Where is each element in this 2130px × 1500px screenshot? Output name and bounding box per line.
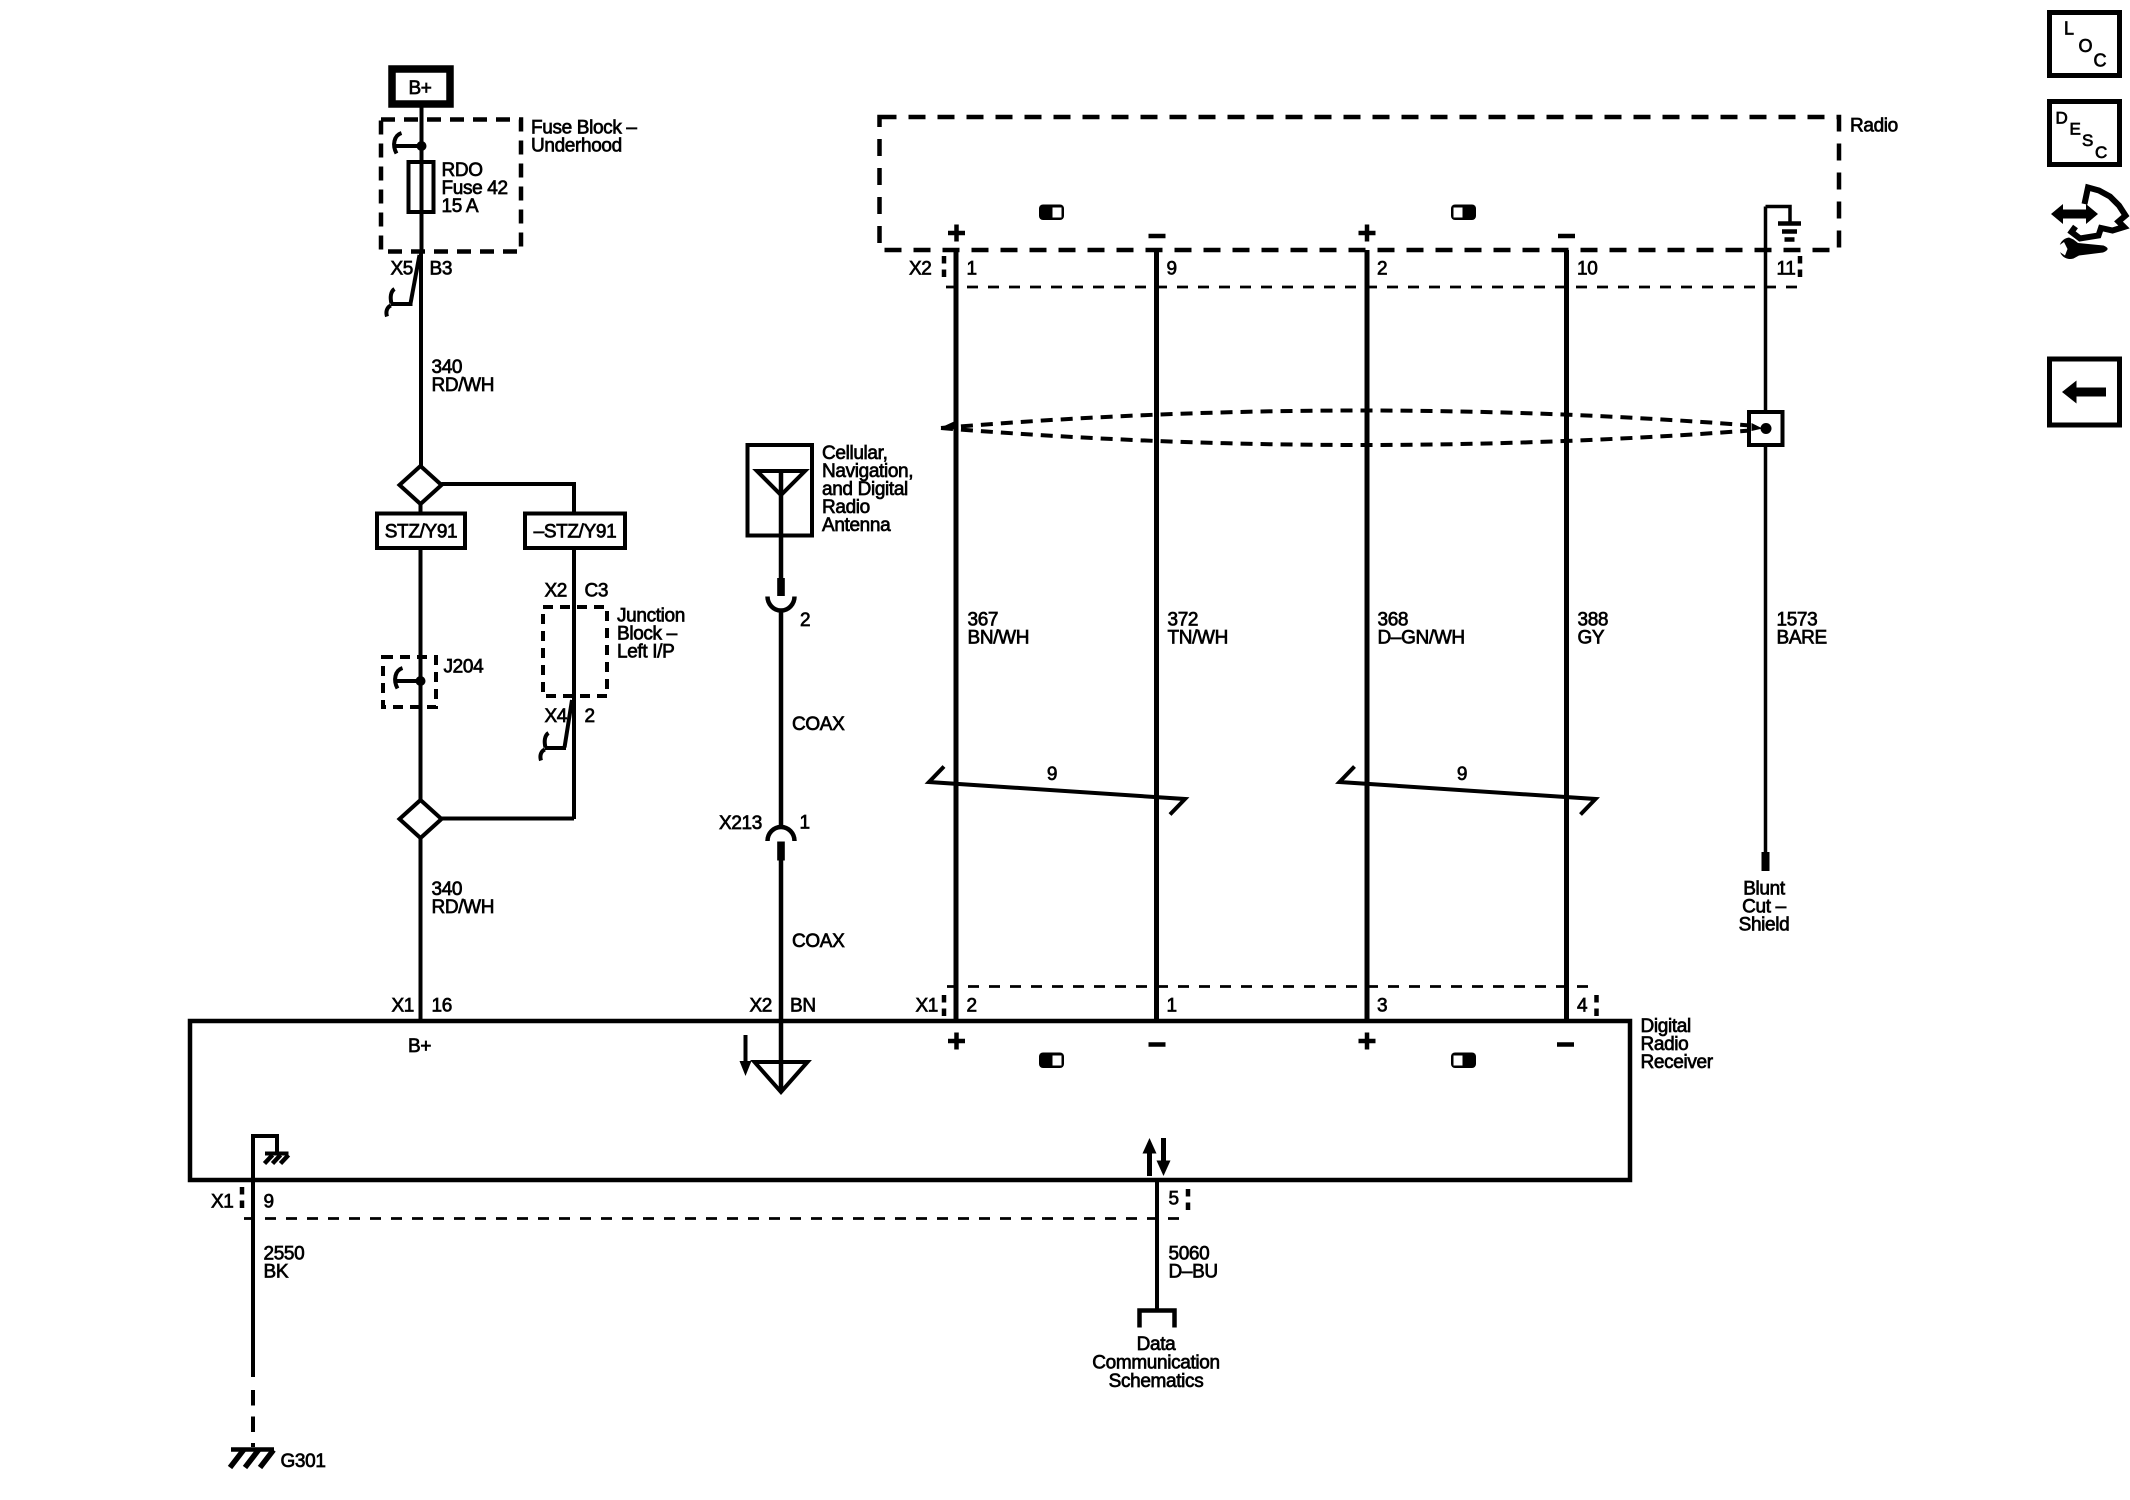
icon LOC box xyxy=(2050,13,2120,76)
svg-text:B+: B+ xyxy=(408,1036,431,1057)
svg-text:2: 2 xyxy=(1377,259,1387,280)
connector X1 pin row top xyxy=(915,995,1596,1017)
power symbol B+ xyxy=(392,69,450,104)
antenna Cellular Navigation Digital Radio xyxy=(748,445,813,578)
svg-text:X2: X2 xyxy=(749,996,772,1017)
svg-text:2: 2 xyxy=(800,610,810,631)
svg-text:Radio: Radio xyxy=(1850,116,1898,137)
radio speaker icon left xyxy=(1039,205,1064,221)
svg-text:BK: BK xyxy=(264,1262,289,1283)
svg-text:Antenna: Antenna xyxy=(822,515,891,536)
ground G301 xyxy=(230,1450,326,1473)
alias box -STZ/Y91 xyxy=(525,514,625,549)
data communication arrows xyxy=(1143,1138,1171,1176)
wire from S1 to -STZ/Y91 xyxy=(442,484,575,514)
svg-text:COAX: COAX xyxy=(792,714,845,735)
radio internal ground pin 11 xyxy=(1766,207,1802,240)
svg-text:STZ/Y91: STZ/Y91 xyxy=(385,522,458,543)
wire 2550 BK xyxy=(251,1181,255,1377)
svg-text:Underhood: Underhood xyxy=(531,136,622,157)
svg-text:S: S xyxy=(2082,131,2093,150)
terminal clip at fuse input with junction dot xyxy=(394,133,426,154)
shield tie box with junction dot xyxy=(1749,412,1783,445)
receiver polarity marks xyxy=(948,1033,1574,1050)
svg-text:RD/WH: RD/WH xyxy=(432,375,495,396)
speaker wire 388 GY xyxy=(1564,250,1569,1021)
svg-text:15 A: 15 A xyxy=(442,196,479,217)
svg-text:X1: X1 xyxy=(391,996,414,1017)
svg-text:C3: C3 xyxy=(585,581,609,602)
splice diamond S1 xyxy=(400,466,442,504)
svg-text:O: O xyxy=(2079,36,2093,56)
svg-text:9: 9 xyxy=(1457,764,1467,785)
svg-text:Shield: Shield xyxy=(1739,915,1790,936)
wire -STZ through junction block xyxy=(572,548,576,819)
svg-text:11: 11 xyxy=(1777,259,1796,280)
svg-text:D–BU: D–BU xyxy=(1169,1262,1218,1283)
wire 340 RD/WH upper xyxy=(419,252,423,467)
svg-text:J204: J204 xyxy=(444,657,485,678)
svg-text:RD/WH: RD/WH xyxy=(432,897,495,918)
svg-text:X2: X2 xyxy=(909,259,932,280)
svg-text:C: C xyxy=(2095,143,2107,162)
svg-text:GY: GY xyxy=(1578,628,1605,649)
svg-text:BARE: BARE xyxy=(1777,628,1827,649)
twisted pair marker left 9 xyxy=(929,764,1185,815)
svg-text:–STZ/Y91: –STZ/Y91 xyxy=(534,522,617,543)
svg-text:3: 3 xyxy=(1377,996,1387,1017)
svg-text:X213: X213 xyxy=(719,813,762,834)
svg-text:D–GN/WH: D–GN/WH xyxy=(1378,628,1465,649)
svg-text:5: 5 xyxy=(1169,1189,1179,1210)
svg-text:4: 4 xyxy=(1577,996,1588,1017)
connector X1 plane dashed line xyxy=(947,985,1597,988)
svg-text:BN/WH: BN/WH xyxy=(968,628,1030,649)
receiver pin labels X1 16 xyxy=(391,996,451,1017)
wire X4 down and across to S2 xyxy=(442,817,575,821)
icon repair tool xyxy=(2051,188,2126,260)
connector X4 2 labels xyxy=(544,706,594,727)
svg-text:16: 16 xyxy=(432,996,452,1017)
svg-text:1: 1 xyxy=(1167,996,1177,1017)
svg-text:Left I/P: Left I/P xyxy=(617,642,674,663)
fuse block underhood dashed box xyxy=(381,120,521,252)
svg-text:B3: B3 xyxy=(430,259,453,280)
antenna connector pin 2 xyxy=(768,578,811,631)
wire 340 RD/WH lower xyxy=(419,838,423,1021)
label Fuse Block - Underhood xyxy=(531,118,637,157)
speaker wire 372 TN/WH xyxy=(1154,250,1159,1021)
connector X213 pin 1 xyxy=(719,813,810,861)
coax wire lower xyxy=(779,860,784,1021)
svg-text:X2: X2 xyxy=(544,581,567,602)
blunt cut shield end xyxy=(1739,852,1790,936)
svg-text:X4: X4 xyxy=(544,706,567,727)
twisted pair marker right 9 xyxy=(1340,764,1596,815)
svg-text:Schematics: Schematics xyxy=(1109,1371,1204,1392)
svg-text:Receiver: Receiver xyxy=(1641,1052,1714,1073)
receiver internal ground xyxy=(253,1136,289,1181)
wire S1 to STZ box xyxy=(419,504,423,514)
connector X5 B3 labels xyxy=(390,259,452,280)
svg-text:X1: X1 xyxy=(915,996,938,1017)
svg-text:B+: B+ xyxy=(408,78,431,99)
connector X1 pin 9 bottom xyxy=(211,1187,274,1213)
connector pin 5 xyxy=(1169,1189,1189,1215)
svg-text:X5: X5 xyxy=(390,259,413,280)
svg-text:9: 9 xyxy=(264,1192,274,1213)
svg-text:10: 10 xyxy=(1577,259,1597,280)
svg-text:TN/WH: TN/WH xyxy=(1168,628,1229,649)
radio speaker icon right xyxy=(1451,205,1476,221)
svg-text:D: D xyxy=(2056,109,2068,128)
wire B+ to fuse xyxy=(420,107,424,252)
alias box STZ/Y91 xyxy=(377,514,465,549)
svg-text:2: 2 xyxy=(967,996,977,1017)
receiver speaker icon left xyxy=(1039,1053,1064,1069)
svg-text:1: 1 xyxy=(800,813,810,834)
svg-text:X1: X1 xyxy=(211,1192,234,1213)
connector X2 pin row xyxy=(909,256,1800,281)
fuse RDO Fuse 42 15 A xyxy=(409,160,508,217)
radio dashed box xyxy=(880,117,1840,250)
connector X2 C3 labels xyxy=(544,581,608,602)
wire 5060 D-BU xyxy=(1155,1181,1159,1310)
svg-text:COAX: COAX xyxy=(792,931,845,952)
svg-text:9: 9 xyxy=(1047,764,1057,785)
svg-text:2: 2 xyxy=(585,706,595,727)
connector X1 bottom plane dashed line xyxy=(244,1217,1188,1220)
coax wire upper xyxy=(779,611,784,830)
svg-text:G301: G301 xyxy=(281,1451,326,1472)
speaker wire 368 D-GN/WH xyxy=(1365,250,1370,1021)
svg-text:E: E xyxy=(2070,120,2081,139)
svg-text:1: 1 xyxy=(967,259,977,280)
digital radio receiver box xyxy=(190,1016,1714,1180)
icon DESC box xyxy=(2050,102,2120,165)
receiver pin labels X2 BN xyxy=(749,996,815,1017)
svg-text:BN: BN xyxy=(790,996,816,1017)
speaker wire 367 BN/WH xyxy=(954,250,959,1021)
svg-text:C: C xyxy=(2094,51,2107,71)
svg-text:9: 9 xyxy=(1167,259,1177,280)
wire below STZ/Y91 to splice S2 xyxy=(420,467,422,549)
connector X2 plane dashed line xyxy=(946,286,1797,289)
radio polarity marks xyxy=(948,225,1575,242)
svg-text:L: L xyxy=(2064,19,2074,39)
off page reference to data schematics xyxy=(1092,1311,1219,1393)
terminal clip X5/B3 xyxy=(386,255,419,317)
splice J204 dashed box and terminal xyxy=(383,657,484,708)
splice diamond S2 xyxy=(400,800,442,838)
receiver speaker icon right xyxy=(1451,1053,1476,1069)
antenna input arrow and symbol xyxy=(740,1021,808,1092)
terminal clip X4 xyxy=(540,700,572,761)
icon back arrow box xyxy=(2050,359,2120,425)
shield ellipse dashed xyxy=(941,411,1782,446)
junction block left I/P dashed box xyxy=(543,606,685,697)
shield drain wire 1573 BARE xyxy=(1764,207,1768,413)
